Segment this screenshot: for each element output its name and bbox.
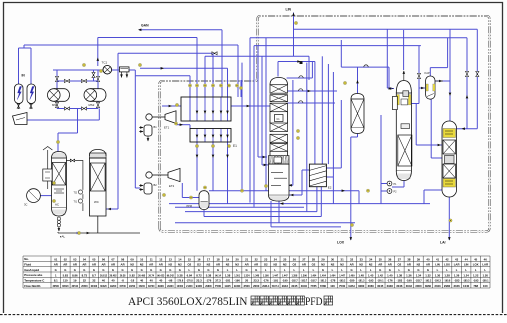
separator B1 (144, 125, 152, 136)
svg-text:-190: -190 (234, 279, 240, 283)
svg-text:20500: 20500 (81, 286, 88, 288)
column C1 upper (270, 78, 288, 85)
wire below E1 (196, 160, 198, 191)
svg-text:G: G (179, 268, 181, 272)
svg-text:29800: 29800 (205, 286, 212, 288)
svg-text:L: L (274, 268, 276, 272)
svg-text:-180.3: -180.3 (434, 281, 441, 283)
svg-text:1.447: 1.447 (272, 274, 278, 277)
svg-text:O2: O2 (312, 263, 316, 267)
crude argon column PRL (396, 81, 411, 94)
title text (128, 294, 333, 308)
svg-text:30520: 30520 (62, 286, 69, 288)
wire into coldbox (135, 75, 190, 77)
water cooling tower WC (90, 150, 107, 157)
wire WC bottom (97, 216, 99, 233)
svg-text:20: 20 (245, 279, 249, 283)
svg-text:-183.7: -183.7 (415, 281, 422, 283)
svg-text:37.3: 37.3 (215, 279, 221, 283)
svg-text:G: G (351, 268, 353, 272)
svg-text:96.14: 96.14 (215, 274, 221, 277)
wire bottom header 3 (185, 211, 317, 213)
svg-text:12: 12 (159, 257, 163, 261)
svg-text:LIN: LIN (435, 263, 440, 267)
wire y45.6 right header (254, 45, 421, 47)
stream data table (23, 256, 490, 288)
pump P1 (387, 181, 392, 186)
wire ET1 outlet (176, 124, 190, 126)
svg-text:WC: WC (94, 200, 99, 204)
svg-text:N2: N2 (417, 263, 421, 267)
IN prefilter B (27, 84, 36, 104)
svg-text:40: 40 (111, 279, 115, 283)
wire PRL left feed (386, 29, 388, 88)
wire y56 header (205, 55, 309, 57)
svg-text:G: G (427, 268, 429, 272)
wire bottom header 1 (169, 203, 430, 205)
vent arrow (403, 71, 405, 81)
svg-text:60400: 60400 (91, 285, 98, 288)
svg-text:N2: N2 (169, 263, 173, 267)
wire vertical x250 (249, 38, 251, 203)
wire MS bottom rail (56, 101, 58, 108)
phase separator PPM (199, 191, 209, 210)
svg-text:Gas/Liquid: Gas/Liquid (24, 268, 39, 272)
wire H2 vent header (98, 37, 197, 39)
svg-text:3060: 3060 (415, 284, 422, 288)
svg-text:1.38: 1.38 (225, 273, 231, 277)
wire y61.5 header (278, 61, 315, 63)
svg-text:L: L (446, 268, 448, 272)
wire TC1 suction header (53, 69, 103, 71)
svg-text:10000: 10000 (177, 286, 184, 288)
svg-text:L: L (227, 268, 229, 272)
svg-text:AR: AR (388, 263, 392, 267)
svg-text:25: 25 (283, 257, 287, 261)
svg-text:1.26: 1.26 (454, 273, 460, 277)
svg-text:Flow Nm3/h: Flow Nm3/h (24, 284, 40, 288)
wire x306.8 (306, 63, 308, 212)
svg-text:30: 30 (331, 257, 335, 261)
black mark on y62 line (300, 61, 303, 64)
svg-text:-100.1: -100.1 (377, 281, 384, 283)
svg-text:Pressure abs: Pressure abs (24, 273, 43, 277)
wire E2 right links (326, 167, 341, 169)
wire x320.9 (321, 56, 323, 164)
svg-text:-181: -181 (225, 279, 231, 283)
wire vertical x205 (204, 56, 206, 97)
svg-text:5.38: 5.38 (206, 273, 212, 277)
svg-text:APCI 3560LOX/2785LIN: APCI 3560LOX/2785LIN (128, 294, 248, 308)
wire C1 sump outs (270, 201, 272, 227)
wire y29.3 right header (294, 28, 478, 30)
svg-text:40: 40 (426, 257, 430, 261)
svg-text:23: 23 (264, 257, 268, 261)
wire ET2 outlet to PPM (181, 183, 183, 198)
wire SBR feeds left (416, 144, 443, 146)
svg-text:Fluid: Fluid (24, 262, 31, 266)
svg-text:E1: E1 (233, 144, 237, 148)
svg-text:B2: B2 (154, 183, 158, 187)
svg-text:LAr: LAr (440, 241, 447, 245)
svg-text:2980: 2980 (444, 284, 451, 288)
svg-text:L: L (484, 268, 486, 272)
svg-text:60420: 60420 (100, 285, 107, 288)
svg-text:L: L (465, 268, 467, 272)
wire regen to AC (77, 109, 79, 134)
svg-text:17: 17 (207, 257, 211, 261)
svg-text:40: 40 (159, 279, 163, 283)
svg-text:N2: N2 (321, 263, 325, 267)
wire KAP vapour out (435, 80, 450, 82)
svg-text:G: G (246, 268, 248, 272)
svg-text:-180.1: -180.1 (482, 281, 489, 283)
svg-text:N2: N2 (283, 263, 287, 267)
svg-text:N2: N2 (273, 263, 277, 267)
wire bottom header 6 (271, 226, 341, 228)
wire KAP top feed (447, 38, 449, 68)
svg-text:-176: -176 (387, 279, 393, 283)
svg-text:-8: -8 (121, 279, 124, 283)
svg-text:1.324: 1.324 (244, 274, 250, 277)
wire KAP bottom out (430, 99, 432, 158)
svg-text:-185.3: -185.3 (463, 281, 470, 283)
svg-text:9400: 9400 (196, 284, 203, 288)
svg-text:1.48: 1.48 (358, 273, 364, 277)
svg-text:1.404: 1.404 (320, 274, 326, 277)
svg-text:43: 43 (455, 257, 459, 261)
svg-text:PFD: PFD (305, 294, 323, 308)
svg-text:19: 19 (73, 279, 77, 283)
svg-text:AR: AR (350, 263, 354, 267)
svg-text:21: 21 (245, 257, 249, 261)
svg-text:-170.8: -170.8 (186, 281, 193, 283)
svg-text:15700: 15700 (119, 286, 126, 288)
svg-text:L: L (370, 268, 372, 272)
svg-text:1.301: 1.301 (234, 275, 240, 277)
svg-text:8.7: 8.7 (92, 273, 96, 277)
svg-text:22: 22 (255, 257, 259, 261)
svg-text:23.3: 23.3 (196, 279, 202, 283)
wire vertical x238 (237, 45, 239, 97)
svg-text:AR: AR (302, 263, 306, 267)
svg-text:O2: O2 (397, 263, 401, 267)
svg-text:G: G (207, 268, 209, 272)
svg-text:1.404: 1.404 (330, 274, 336, 277)
svg-text:-176: -176 (206, 279, 212, 283)
svg-text:ET2: ET2 (169, 184, 175, 188)
svg-text:G: G (74, 268, 76, 272)
vessel KAP (426, 76, 435, 99)
svg-text:04: 04 (83, 257, 87, 261)
svg-text:ET1: ET1 (164, 126, 170, 130)
wire filter vessel top riser (357, 67, 359, 93)
wire LOX product (357, 133, 359, 137)
svg-text:L: L (475, 268, 477, 272)
wire PPM vapour header (209, 190, 359, 192)
wire LIN product line (293, 13, 295, 57)
svg-text:3500: 3500 (244, 284, 251, 288)
svg-text:O2: O2 (292, 263, 296, 267)
adsorber MS1 (54, 89, 70, 102)
main exchanger E1 section B (190, 129, 231, 143)
wire vertical x309 (308, 56, 310, 80)
svg-text:46: 46 (484, 257, 488, 261)
svg-text:6.84: 6.84 (187, 273, 193, 277)
wire AC feed blower (40, 195, 51, 197)
svg-text:26.495: 26.495 (138, 274, 146, 277)
svg-text:No.: No. (24, 257, 29, 261)
svg-text:23.3: 23.3 (253, 279, 259, 283)
svg-text:AR: AR (407, 263, 411, 267)
svg-text:L: L (294, 268, 296, 272)
svg-text:G: G (121, 268, 123, 272)
svg-text:1.32: 1.32 (425, 273, 431, 277)
svg-text:Temperature C: Temperature C (24, 278, 45, 282)
svg-text:33: 33 (360, 257, 364, 261)
svg-text:B1: B1 (154, 125, 158, 129)
svg-text:1.447: 1.447 (339, 274, 345, 277)
svg-text:G: G (131, 268, 133, 272)
svg-text:5437.4: 5437.4 (272, 285, 280, 288)
svg-text:LIN: LIN (464, 263, 469, 267)
svg-text:06: 06 (102, 257, 106, 261)
wire bottom header 5 (175, 222, 355, 224)
svg-text:1.24: 1.24 (463, 273, 469, 277)
argon column SBR (442, 121, 457, 197)
svg-text:110: 110 (63, 279, 68, 283)
svg-text:10: 10 (140, 257, 144, 261)
svg-text:G: G (379, 268, 381, 272)
svg-text:1.447: 1.447 (282, 274, 288, 277)
svg-text:5.38: 5.38 (177, 273, 183, 277)
svg-text:1945A: 1945A (348, 285, 355, 288)
svg-text:45: 45 (474, 257, 478, 261)
svg-text:96.423: 96.423 (157, 274, 165, 277)
svg-text:11: 11 (150, 257, 153, 261)
svg-text:N2: N2 (359, 263, 363, 267)
wire GAN header (139, 29, 222, 31)
wire MS crossover top (57, 80, 98, 82)
main exchanger E1 section A (181, 97, 231, 121)
svg-text:3043: 3043 (406, 284, 413, 288)
svg-text:G: G (169, 268, 171, 272)
IN prefilter A (15, 84, 24, 104)
svg-text:3960: 3960 (425, 284, 432, 288)
svg-text:-192.7: -192.7 (291, 281, 298, 283)
svg-text:AR: AR (82, 263, 86, 267)
wire E2 feed left (162, 105, 181, 107)
svg-text:AR: AR (111, 263, 115, 267)
wire E1A outlet to C1 (231, 105, 270, 107)
filter AF hopper (13, 113, 28, 125)
svg-text:15: 15 (188, 257, 192, 261)
wire vertical to E1 from GAN (221, 30, 223, 97)
wire PRL col bottom (403, 180, 405, 187)
svg-text:16: 16 (197, 257, 201, 261)
svg-text:100: 100 (330, 284, 335, 288)
svg-text:N2: N2 (235, 263, 239, 267)
svg-text:96.242: 96.242 (167, 274, 175, 277)
svg-text:19200: 19200 (110, 286, 117, 288)
svg-text:5.83: 5.83 (63, 273, 69, 277)
svg-text:-192.7: -192.7 (310, 281, 317, 283)
wire IN filter headers (18, 48, 20, 84)
svg-text:29400: 29400 (167, 285, 174, 288)
svg-text:AR: AR (92, 263, 96, 267)
svg-text:-183.7: -183.7 (301, 281, 308, 283)
svg-text:13: 13 (169, 257, 173, 261)
svg-text:8.73: 8.73 (82, 273, 88, 277)
wire y37.7 right header (250, 37, 467, 39)
svg-text:2000: 2000 (253, 284, 260, 288)
svg-text:07: 07 (111, 257, 115, 261)
wire x312.4 (311, 62, 313, 79)
svg-text:09: 09 (131, 257, 135, 261)
wire vertical x467 with valve (466, 38, 468, 129)
wire vertical x197 (196, 38, 198, 98)
svg-text:18: 18 (216, 257, 220, 261)
svg-text:29400: 29400 (234, 285, 241, 288)
svg-text:G: G (64, 268, 66, 272)
svg-text:AR: AR (159, 263, 163, 267)
svg-text:8.72: 8.72 (196, 273, 202, 277)
svg-text:L: L (360, 268, 362, 272)
svg-text:1040: 1040 (463, 284, 470, 288)
svg-text:14: 14 (178, 257, 182, 261)
svg-text:L: L (189, 268, 191, 272)
svg-text:TC1: TC1 (102, 61, 108, 65)
svg-text:7500: 7500 (339, 284, 346, 288)
AC vent line w valve (66, 161, 83, 212)
svg-text:AR: AR (216, 263, 220, 267)
instrument TI1 (78, 199, 82, 203)
svg-text:37: 37 (398, 257, 402, 261)
svg-text:O2: O2 (188, 263, 192, 267)
svg-text:L: L (284, 268, 286, 272)
wire SBR top feed x450 (449, 29, 451, 122)
svg-text:3C: 3C (24, 203, 27, 207)
svg-text:34: 34 (369, 257, 373, 261)
svg-text:29: 29 (321, 257, 325, 261)
svg-text:31: 31 (341, 257, 345, 261)
svg-text:7785: 7785 (310, 284, 317, 288)
wire regen line down to WC (117, 53, 119, 209)
svg-text:35: 35 (379, 257, 383, 261)
svg-text:-190: -190 (282, 279, 288, 283)
svg-text:08: 08 (121, 257, 125, 261)
svg-text:LAR: LAR (454, 263, 460, 267)
svg-text:39700: 39700 (148, 286, 155, 288)
wire vertical x314.5 (314, 62, 316, 165)
wire LAr product (448, 197, 450, 240)
svg-text:O2: O2 (264, 263, 268, 267)
svg-text:3060: 3060 (368, 284, 375, 288)
svg-text:G: G (408, 268, 410, 272)
svg-text:38: 38 (407, 257, 411, 261)
svg-text:G: G (417, 268, 419, 272)
svg-text:44: 44 (465, 257, 469, 261)
svg-text:7500: 7500 (215, 284, 222, 288)
svg-text:1.30: 1.30 (435, 273, 441, 277)
svg-text:41: 41 (436, 257, 440, 261)
wire hopper line (98, 109, 100, 121)
svg-text:1.358: 1.358 (291, 275, 297, 277)
wire C1 top feed (277, 62, 279, 77)
svg-text:3900: 3900 (158, 284, 165, 288)
wire x241 stub (240, 80, 242, 97)
svg-text:-183: -183 (454, 279, 460, 283)
svg-text:L: L (332, 268, 334, 272)
svg-text:AR: AR (149, 263, 153, 267)
svg-text:LOX: LOX (473, 263, 479, 267)
wire air to E1 arrows (140, 67, 228, 69)
svg-text:1.22: 1.22 (473, 273, 479, 277)
svg-text:G: G (93, 268, 95, 272)
svg-text:L: L (398, 268, 400, 272)
svg-text:8.1: 8.1 (54, 279, 58, 283)
svg-text:G: G (55, 268, 57, 272)
svg-text:L: L (437, 268, 439, 272)
svg-text:01: 01 (54, 257, 58, 261)
svg-text:28: 28 (312, 257, 316, 261)
svg-text:G: G (83, 268, 85, 272)
svg-text:AR: AR (245, 263, 249, 267)
svg-text:-183: -183 (397, 279, 403, 283)
LOX filter vessel (351, 94, 364, 100)
svg-text:N2: N2 (178, 263, 182, 267)
svg-text:3080: 3080 (358, 284, 365, 288)
adsorber MS2 (90, 89, 106, 102)
svg-text:G: G (217, 268, 219, 272)
svg-text:G: G (102, 268, 104, 272)
svg-text:AR: AR (101, 263, 105, 267)
svg-text:1945: 1945 (224, 284, 231, 288)
svg-text:26.74: 26.74 (148, 274, 154, 277)
svg-text:1.409: 1.409 (349, 274, 355, 277)
svg-text:9150: 9150 (129, 284, 136, 288)
wire H3 main air header y45 (24, 44, 238, 46)
svg-text:1.45: 1.45 (368, 273, 374, 277)
condenser band (269, 156, 290, 165)
wire drain line (58, 232, 140, 233)
wire vertical x213 (212, 53, 214, 97)
svg-text:-181.3: -181.3 (320, 281, 327, 283)
svg-text:40: 40 (150, 279, 154, 283)
valves under filters (17, 104, 20, 108)
wire H4 y53 (118, 52, 213, 54)
svg-text:N2: N2 (130, 263, 134, 267)
svg-text:1.34: 1.34 (416, 273, 422, 277)
svg-text:O2: O2 (197, 263, 201, 267)
svg-text:-190: -190 (406, 279, 412, 283)
svg-text:1.28: 1.28 (444, 273, 450, 277)
svg-text:3040: 3040 (301, 284, 308, 288)
svg-text:AR: AR (378, 263, 382, 267)
wire x341 riser and loop line to PRL vessel (340, 40, 342, 67)
blower 3C chain (43, 147, 52, 151)
svg-text:G: G (255, 268, 257, 272)
svg-text:AR: AR (254, 263, 258, 267)
svg-text:-191: -191 (272, 279, 278, 283)
wire vertical x477 with valve (476, 29, 478, 128)
wire x333 (332, 72, 334, 204)
svg-text:26: 26 (293, 257, 297, 261)
svg-text:40: 40 (102, 279, 106, 283)
svg-text:3043: 3043 (434, 284, 441, 288)
svg-text:1.348: 1.348 (253, 274, 259, 277)
svg-text:19: 19 (226, 257, 230, 261)
